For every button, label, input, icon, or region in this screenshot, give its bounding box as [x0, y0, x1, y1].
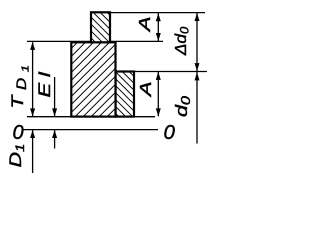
svg-text:A: A — [138, 81, 155, 97]
svg-text:EI: EI — [35, 71, 54, 98]
svg-text:TD1: TD1 — [9, 59, 31, 108]
svg-text:Δd0: Δd0 — [172, 27, 192, 56]
svg-text:0: 0 — [164, 121, 176, 144]
svg-text:0: 0 — [13, 122, 24, 144]
svg-text:d0: d0 — [173, 96, 193, 117]
svg-text:D1: D1 — [7, 144, 27, 168]
svg-text:A: A — [137, 16, 154, 32]
